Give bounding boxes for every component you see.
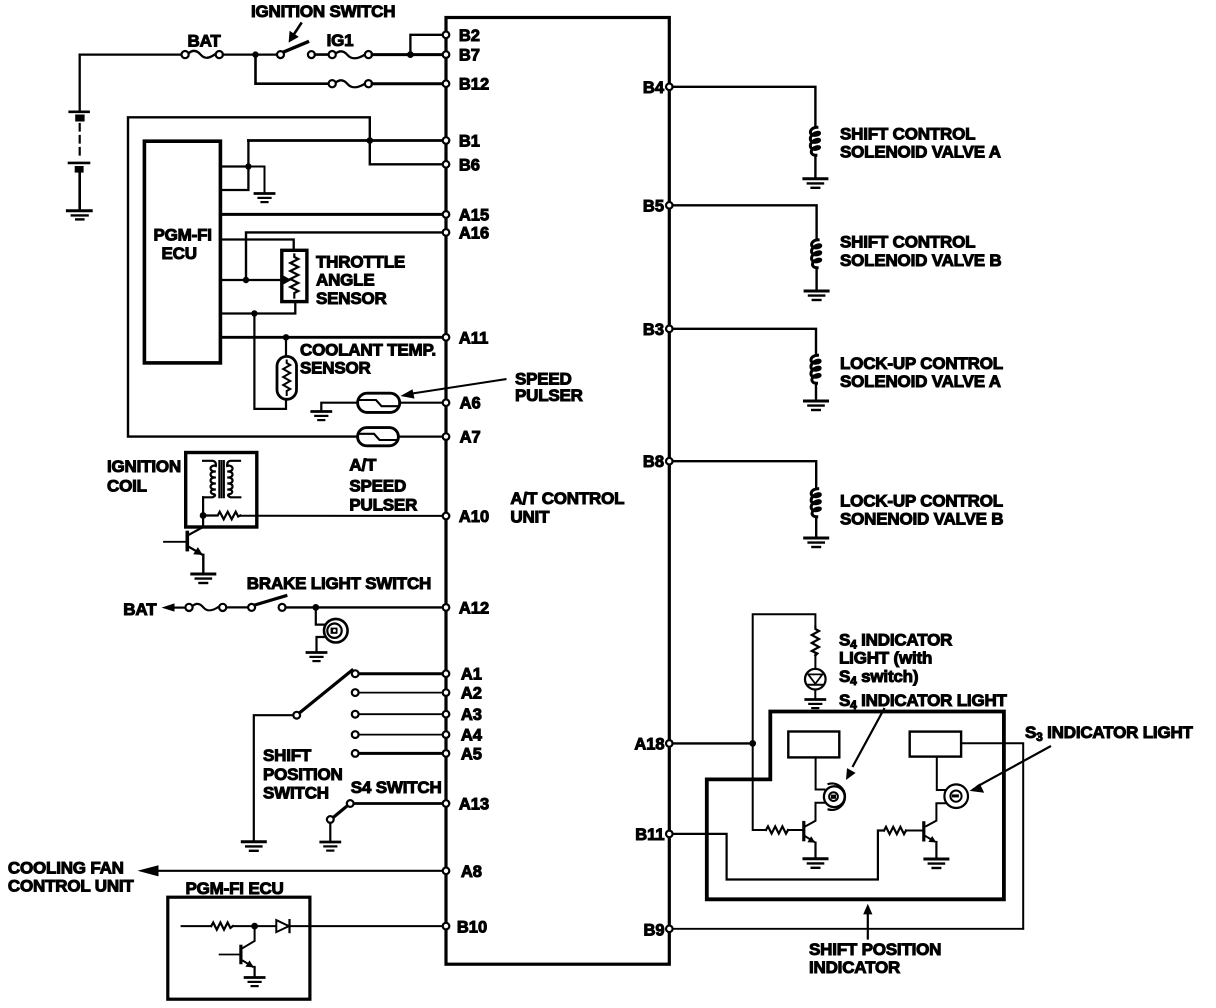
junction dot coolant top bbox=[283, 334, 289, 340]
wire B3 to lock-up solenoid A bbox=[673, 329, 816, 355]
bulb S4 indicator light bbox=[824, 784, 845, 810]
wire A18 to Q3 base resistor bbox=[753, 743, 766, 830]
svg-text:B11: B11 bbox=[635, 826, 664, 844]
svg-text:SHIFT: SHIFT bbox=[263, 746, 312, 765]
ground solenoid B bbox=[805, 291, 828, 300]
wire shift switch common bbox=[254, 715, 293, 840]
svg-text:S4 switch): S4 switch) bbox=[839, 667, 918, 688]
bulb brake light bbox=[324, 619, 348, 643]
pin B5 bbox=[666, 202, 673, 209]
throttle wiper arrowhead bbox=[283, 275, 292, 284]
wire to brake bulb bbox=[316, 607, 325, 624]
battery bbox=[69, 112, 89, 210]
ignition switch pointer arrow bbox=[295, 24, 301, 34]
pin A6 bbox=[443, 399, 450, 406]
wire ECU to throttle sensor top bbox=[220, 240, 293, 251]
pin A18 bbox=[666, 740, 673, 747]
wire A5 bbox=[359, 752, 446, 755]
transistor Q4 bbox=[924, 823, 936, 843]
resistor Q4 base bbox=[884, 827, 906, 834]
solenoid coil shift control A bbox=[810, 127, 819, 155]
svg-text:COIL: COIL bbox=[107, 476, 147, 495]
svg-text:S3 INDICATOR LIGHT: S3 INDICATOR LIGHT bbox=[1025, 723, 1194, 744]
svg-text:B5: B5 bbox=[643, 197, 664, 215]
resistor B10 bbox=[211, 923, 233, 930]
ground speed pulser bbox=[312, 412, 331, 421]
wire battery to fuse bbox=[80, 53, 182, 55]
relay coil S3 indicator bbox=[910, 732, 961, 757]
ground S4 switch bbox=[321, 842, 340, 851]
svg-text:B1: B1 bbox=[459, 133, 480, 151]
wire to ECU ground bbox=[248, 167, 264, 193]
transformer T1 bbox=[203, 461, 240, 498]
PGM-FI ECU box bbox=[144, 141, 220, 363]
svg-text:SWITCH: SWITCH bbox=[263, 784, 329, 803]
contact A5 bbox=[352, 750, 359, 757]
junction dot coolant branch bbox=[251, 310, 257, 316]
resistor Q3 base bbox=[766, 826, 788, 833]
contact A2 bbox=[352, 689, 359, 696]
svg-text:A4: A4 bbox=[461, 727, 483, 745]
svg-text:SHIFT CONTROL: SHIFT CONTROL bbox=[840, 233, 975, 252]
wire B7 bbox=[372, 53, 446, 56]
svg-text:A6: A6 bbox=[460, 395, 481, 413]
transistor Q2 bbox=[220, 926, 255, 967]
wire B8 to lock-up solenoid B bbox=[673, 461, 817, 488]
wire A16 bbox=[246, 232, 446, 280]
svg-text:SENSOR: SENSOR bbox=[300, 358, 371, 377]
ground Q2 bbox=[245, 978, 264, 987]
junction dot A18 bbox=[749, 740, 756, 747]
wire relay2 to B9 loop bbox=[961, 743, 1023, 929]
pin A4 bbox=[443, 731, 450, 738]
pin A13 bbox=[443, 800, 450, 807]
solenoid coil lock-up A bbox=[811, 355, 820, 383]
shift position indicator box bbox=[707, 712, 1004, 900]
junction dot Q2 collector bbox=[251, 923, 258, 930]
pin A7 bbox=[443, 433, 450, 440]
svg-text:BAT: BAT bbox=[123, 600, 157, 619]
arrow S4 indicator light bbox=[853, 709, 884, 766]
wire Q2 emitter to ground bbox=[254, 967, 256, 976]
wire A1 bbox=[359, 672, 446, 675]
battery feed wire down bbox=[79, 55, 81, 112]
svg-text:COOLANT TEMP.: COOLANT TEMP. bbox=[300, 340, 436, 359]
wire ECU to throttle wiper bbox=[220, 279, 284, 281]
svg-text:B3: B3 bbox=[643, 321, 664, 339]
wire S4 light feed bbox=[753, 614, 816, 743]
arrow S3 indicator light bbox=[978, 747, 1050, 787]
wire bulb1 to Q3 bbox=[805, 803, 824, 827]
contact A4 bbox=[352, 731, 359, 738]
pin A2 bbox=[443, 689, 450, 696]
wire fuse to switch bbox=[223, 53, 277, 55]
wire outer loop A7/B6 bbox=[128, 117, 446, 436]
wire coil to ground bbox=[815, 517, 817, 536]
pin B6 bbox=[443, 161, 450, 168]
ground Q1 bbox=[192, 574, 215, 583]
ground solenoid A bbox=[804, 179, 827, 188]
wire B12 branch bbox=[256, 55, 329, 84]
transistor Q3 bbox=[804, 823, 815, 843]
svg-text:SHIFT POSITION: SHIFT POSITION bbox=[809, 940, 941, 959]
pin A8 bbox=[443, 868, 450, 875]
svg-text:IGNITION SWITCH: IGNITION SWITCH bbox=[251, 2, 395, 21]
svg-text:BAT: BAT bbox=[188, 31, 222, 50]
arrow shift position indicator bbox=[867, 912, 869, 939]
wire A4 bbox=[359, 734, 446, 736]
wire B9 bbox=[673, 928, 1024, 930]
wire B5 to solenoid B bbox=[673, 205, 817, 239]
diode D1 bbox=[276, 920, 289, 932]
pin B8 bbox=[666, 458, 673, 465]
svg-text:SONENOID VALVE B: SONENOID VALVE B bbox=[840, 510, 1003, 529]
pin A16 bbox=[443, 229, 450, 236]
svg-text:A1: A1 bbox=[461, 666, 482, 684]
wire relay1 to bulb1 bbox=[816, 757, 825, 789]
pin A3 bbox=[443, 711, 450, 718]
fuse brake light bbox=[193, 604, 219, 611]
ignition coil box bbox=[186, 453, 257, 528]
arrow to BAT bbox=[162, 603, 175, 611]
svg-text:CONTROL UNIT: CONTROL UNIT bbox=[8, 876, 135, 895]
svg-text:IGNITION: IGNITION bbox=[107, 457, 181, 476]
ground lock-up solenoid B bbox=[805, 538, 828, 547]
resistor ignition primary bbox=[207, 512, 241, 520]
svg-text:A8: A8 bbox=[461, 863, 482, 881]
wire resistor to LED bbox=[814, 654, 816, 669]
wire Q1 emitter to ground bbox=[202, 555, 204, 573]
pin B10 bbox=[443, 923, 450, 930]
svg-text:B8: B8 bbox=[643, 453, 664, 471]
transistor Q1 bbox=[164, 533, 203, 556]
svg-text:THROTTLE: THROTTLE bbox=[316, 252, 405, 271]
wire A12 bbox=[286, 606, 446, 608]
pin B4 bbox=[666, 84, 673, 91]
ground Q4 bbox=[925, 859, 948, 868]
shift position switch blade bbox=[300, 670, 353, 713]
junction dot brake bulb bbox=[312, 604, 319, 611]
svg-text:S4 INDICATOR LIGHT: S4 INDICATOR LIGHT bbox=[839, 691, 1008, 712]
transistor Q1 collector wire bbox=[189, 516, 203, 535]
svg-text:A11: A11 bbox=[459, 329, 488, 347]
svg-text:A/T CONTROL: A/T CONTROL bbox=[510, 489, 624, 508]
pin B2 bbox=[443, 32, 450, 39]
svg-text:IG1: IG1 bbox=[327, 31, 354, 50]
relay coil S4 indicator bbox=[788, 732, 839, 758]
svg-text:POSITION: POSITION bbox=[263, 765, 343, 784]
ground brake bulb bbox=[307, 653, 326, 662]
S4 switch pivot bbox=[327, 816, 334, 823]
svg-text:B6: B6 bbox=[459, 156, 480, 174]
svg-text:A12: A12 bbox=[459, 600, 489, 618]
wire A15 bbox=[220, 213, 446, 216]
throttle angle sensor box bbox=[282, 250, 307, 301]
svg-text:A/T: A/T bbox=[349, 456, 377, 475]
svg-text:A10: A10 bbox=[459, 508, 489, 526]
wire B2 bbox=[410, 35, 442, 55]
svg-text:B10: B10 bbox=[457, 918, 487, 936]
arrow to cooling fan control unit bbox=[138, 865, 159, 876]
pin A15 bbox=[443, 211, 450, 218]
svg-text:B4: B4 bbox=[643, 79, 665, 97]
pin B1 bbox=[443, 137, 450, 144]
pin A1 bbox=[443, 670, 450, 677]
pin B3 bbox=[666, 326, 673, 333]
coolant temp sensor body bbox=[277, 356, 297, 399]
wire A8 bbox=[155, 870, 446, 872]
resistor throttle sensor bbox=[290, 255, 298, 298]
solenoid coil shift control B bbox=[812, 240, 821, 268]
wire pulser A7 to pin bbox=[398, 436, 446, 438]
A/T control unit box bbox=[446, 18, 669, 965]
svg-text:LOCK-UP CONTROL: LOCK-UP CONTROL bbox=[840, 492, 1003, 511]
svg-text:S4 SWITCH: S4 SWITCH bbox=[351, 778, 442, 797]
wire throttle bottom to ECU bbox=[220, 302, 295, 314]
wire ECU stub to B1 bbox=[220, 141, 248, 191]
svg-text:LOCK-UP CONTROL: LOCK-UP CONTROL bbox=[840, 354, 1003, 373]
svg-text:SOLENOID VALVE B: SOLENOID VALVE B bbox=[840, 251, 1001, 270]
wire primary down bbox=[202, 497, 204, 515]
svg-text:BRAKE LIGHT SWITCH: BRAKE LIGHT SWITCH bbox=[247, 574, 431, 593]
bulb S3 indicator light bbox=[944, 784, 968, 808]
junction dot ECU ground stub bbox=[245, 163, 251, 169]
svg-text:UNIT: UNIT bbox=[510, 507, 550, 526]
junction dot B2/B7 split bbox=[407, 51, 414, 58]
ground ECU bbox=[255, 194, 274, 203]
junction node B1/B6 bbox=[367, 137, 374, 144]
shift switch common contact bbox=[293, 712, 300, 719]
wire B10 internal bbox=[182, 925, 212, 927]
pin A11 bbox=[443, 334, 450, 341]
wire B4 to solenoid A bbox=[673, 87, 816, 127]
wire resistor to Q4 base bbox=[906, 830, 922, 832]
svg-text:PULSER: PULSER bbox=[515, 386, 583, 405]
resistor S4 indicator light bbox=[812, 627, 819, 656]
svg-text:A5: A5 bbox=[461, 745, 482, 763]
fuse B12 bbox=[336, 80, 365, 87]
svg-text:ECU: ECU bbox=[162, 244, 197, 263]
ground shift position switch bbox=[242, 842, 265, 851]
solenoid coil lock-up B bbox=[811, 489, 820, 517]
wire A18 bbox=[673, 742, 753, 744]
svg-text:SOLENOID VALVE A: SOLENOID VALVE A bbox=[840, 142, 1001, 161]
wire B10 bbox=[290, 925, 447, 927]
pin A5 bbox=[443, 750, 450, 757]
wire coil to ground bbox=[815, 384, 817, 400]
svg-text:PGM-FI ECU: PGM-FI ECU bbox=[186, 879, 284, 898]
pin A12 bbox=[443, 604, 450, 611]
wire resistor to diode bbox=[233, 925, 276, 927]
svg-text:B7: B7 bbox=[459, 47, 480, 65]
pin A10 bbox=[443, 513, 450, 520]
svg-text:COOLING FAN: COOLING FAN bbox=[8, 858, 124, 877]
pin B12 bbox=[443, 80, 450, 87]
wire LED to ground bbox=[814, 690, 816, 699]
S4 switch blade bbox=[334, 806, 348, 817]
brake light switch blade bbox=[255, 596, 286, 605]
svg-text:A3: A3 bbox=[461, 706, 482, 724]
svg-text:SENSOR: SENSOR bbox=[316, 289, 387, 308]
svg-text:A2: A2 bbox=[461, 685, 482, 703]
wire A11 bbox=[220, 336, 446, 339]
speed pulser A7 bbox=[358, 428, 399, 446]
junction dot coil/resistor bbox=[200, 512, 207, 519]
wire A3 bbox=[359, 713, 446, 715]
speed pulser A6 bbox=[358, 393, 400, 412]
wire B11 to Q4 base bbox=[673, 831, 884, 880]
junction dot at battery feed split bbox=[252, 51, 258, 57]
svg-text:B9: B9 bbox=[644, 921, 665, 939]
svg-text:A18: A18 bbox=[634, 735, 664, 753]
svg-text:B2: B2 bbox=[459, 27, 480, 45]
contact A1 bbox=[352, 670, 359, 677]
ground lock-up solenoid A bbox=[805, 401, 828, 410]
wire coil to ground bbox=[815, 268, 817, 289]
svg-text:B12: B12 bbox=[459, 76, 489, 94]
wire B12 bbox=[372, 82, 446, 85]
fuse IG1 bbox=[336, 51, 365, 58]
wire coil to ground bbox=[814, 156, 816, 178]
ignition switch blade bbox=[283, 42, 307, 52]
svg-text:SOLENOID VALVE A: SOLENOID VALVE A bbox=[840, 372, 1001, 391]
ground S4 light bbox=[806, 700, 825, 709]
svg-text:PULSER: PULSER bbox=[349, 496, 417, 515]
svg-text:A15: A15 bbox=[459, 206, 489, 224]
pin B7 bbox=[443, 51, 450, 58]
wire A10 bbox=[240, 515, 446, 517]
svg-text:A7: A7 bbox=[460, 429, 481, 447]
ground battery bbox=[67, 211, 91, 220]
wire fuse to brake switch bbox=[226, 606, 248, 608]
wire Q3 emitter to ground bbox=[814, 843, 816, 857]
resistor coolant sensor bbox=[283, 361, 290, 396]
fuse BAT bbox=[189, 51, 216, 58]
PGM-FI ECU bottom box bbox=[168, 897, 310, 999]
wire A2 bbox=[359, 692, 446, 694]
wire coolant sensor top bbox=[285, 337, 287, 356]
LED S4 indicator light (with S4 switch) bbox=[805, 669, 826, 690]
wire B1 bbox=[248, 139, 446, 142]
wire Q4 emitter to ground bbox=[935, 842, 937, 857]
pin B11 bbox=[666, 831, 673, 838]
svg-text:PGM-FI: PGM-FI bbox=[154, 225, 212, 244]
S4 switch contact bbox=[347, 800, 354, 807]
wire ground to pulser A6 bbox=[321, 403, 357, 411]
wire bulb2 to Q4 bbox=[926, 803, 945, 826]
wire relay2 to bulb2 bbox=[937, 757, 945, 790]
svg-text:SHIFT CONTROL: SHIFT CONTROL bbox=[840, 124, 975, 143]
wire resistor to Q3 base bbox=[788, 829, 802, 831]
junction dot A16/wiper bbox=[243, 277, 249, 283]
wire A13 bbox=[354, 802, 446, 805]
svg-text:INDICATOR: INDICATOR bbox=[809, 958, 900, 977]
svg-text:ANGLE: ANGLE bbox=[316, 271, 375, 290]
wire bulb to ground bbox=[317, 637, 326, 651]
wire S4 switch to ground bbox=[329, 823, 331, 841]
arrow speed pulser bbox=[410, 379, 506, 394]
contact A3 bbox=[352, 711, 359, 718]
svg-text:A13: A13 bbox=[459, 796, 489, 814]
svg-text:A16: A16 bbox=[459, 224, 489, 242]
wire switch to IG1 fuse bbox=[315, 53, 329, 56]
wire coolant sensor bottom loop bbox=[254, 314, 286, 409]
ground Q3 bbox=[804, 859, 827, 868]
svg-text:SPEED: SPEED bbox=[349, 476, 406, 495]
wire pulser A6 to pin bbox=[400, 402, 446, 404]
pin B9 bbox=[666, 926, 673, 933]
svg-text:LIGHT (with: LIGHT (with bbox=[839, 649, 932, 668]
